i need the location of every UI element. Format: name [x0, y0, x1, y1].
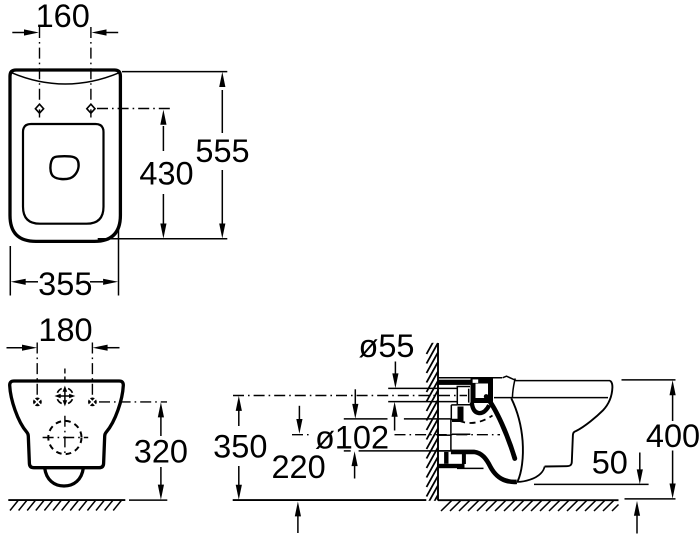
dim o102 down arrow [354, 389, 356, 405]
centerline fixing holes horizontal (front) [99, 401, 167, 403]
rim front arc [11, 73, 119, 84]
fixing hole right (diamond) [87, 104, 95, 113]
svg-text:320: 320 [134, 434, 188, 470]
inlet pipe bottom line [388, 401, 457, 403]
mounting box [451, 420, 458, 451]
dim 220 up arrow below floor [297, 516, 299, 534]
centerline left hole [39, 27, 41, 118]
centerline right hole [90, 27, 92, 118]
rim underside line [494, 397, 608, 399]
centerline holes horizontal [97, 108, 170, 110]
svg-text:220: 220 [271, 449, 325, 485]
inlet pipe top line [388, 387, 457, 389]
flush connector box [473, 381, 491, 401]
wall face line [437, 343, 439, 501]
floor ext right [625, 498, 676, 500]
svg-text:430: 430 [139, 156, 193, 192]
fixing hole right (front) [88, 398, 97, 407]
dim 355 left arrow [26, 281, 39, 283]
tick at connector [468, 389, 470, 403]
dim 220 down arrow [298, 406, 300, 421]
dim 355 ext left [9, 246, 11, 296]
wall top/bottom masks [420, 326, 439, 343]
floor line right [438, 499, 619, 501]
seat back curve [512, 378, 515, 397]
ground ext line front [129, 499, 167, 501]
dim 430 line [162, 126, 164, 151]
dim 160 left arrow [12, 32, 25, 34]
inlet target symbol [55, 386, 76, 407]
dim 180 right arrow [107, 347, 120, 349]
seat opening [23, 124, 104, 224]
dim 180 left arrow [7, 347, 24, 349]
bowl outline front [10, 381, 124, 468]
underside line below stub [457, 467, 484, 469]
hidden rim dashed arc [459, 416, 492, 423]
dim 160 right arrow [106, 32, 118, 34]
floor up arrow right [636, 516, 638, 534]
toilet top line [438, 377, 502, 379]
drain pipe bottom line [344, 450, 351, 452]
rim top line [516, 380, 611, 382]
flush outlet blob [50, 156, 78, 179]
dim 555/430 extension bottom [98, 238, 228, 240]
bracket T piece [458, 407, 464, 422]
svg-text:160: 160 [36, 0, 90, 34]
drain centerline vertical [64, 416, 66, 457]
seat thick bar at wall [438, 380, 472, 385]
dim 355 right arrow [90, 281, 103, 283]
dim o55 down arrow [394, 362, 396, 376]
dim 555 extension top [122, 71, 227, 73]
inlet centerline [233, 395, 467, 397]
drain centerline [292, 434, 310, 436]
wall hatch [427, 333, 439, 515]
hook below connector [472, 403, 489, 414]
dim 350 line [238, 410, 240, 426]
centerline 180 right [91, 343, 93, 399]
baseline left [233, 499, 427, 501]
drain dashed circle [48, 421, 81, 454]
bowl front profile [545, 381, 613, 467]
outlet stub bar [437, 464, 465, 468]
dim 400 line [672, 394, 674, 421]
svg-text:355: 355 [38, 266, 92, 302]
bump thin arc [517, 467, 545, 482]
pan outer outline [10, 70, 120, 241]
underside ext line [534, 483, 649, 485]
trapway swoosh [486, 397, 515, 459]
svg-text:180: 180 [38, 312, 92, 348]
dim 355 ext right [118, 230, 120, 296]
fixing hole left (front) [33, 398, 42, 407]
svg-text:50: 50 [592, 445, 628, 481]
drain pipe top line [344, 418, 388, 420]
dim o102 up arrow [354, 465, 356, 479]
svg-text:ø55: ø55 [358, 328, 414, 364]
inlet centerline above rim [64, 369, 66, 382]
drain centerline horizontal [43, 437, 89, 439]
dim 320 line [160, 416, 162, 436]
dim 400 ext top [622, 379, 676, 381]
trapway bottom thick [451, 452, 517, 482]
dim 555 line [221, 90, 223, 133]
svg-text:ø102: ø102 [315, 420, 389, 456]
ground line front [8, 499, 125, 501]
svg-text:350: 350 [213, 429, 267, 465]
ground hatch front [10, 501, 121, 511]
svg-text:555: 555 [195, 133, 249, 169]
fixing hole left (diamond) [35, 104, 43, 113]
dim 50 down arrow [639, 453, 641, 471]
small rect left of connector [457, 387, 470, 405]
svg-text:400: 400 [646, 418, 700, 454]
trapway bump [45, 468, 84, 486]
dim o55 up arrow [394, 416, 396, 431]
seat rear edge slope [503, 376, 517, 380]
centerline 180 left [36, 343, 38, 399]
floor hatch right [441, 501, 619, 511]
